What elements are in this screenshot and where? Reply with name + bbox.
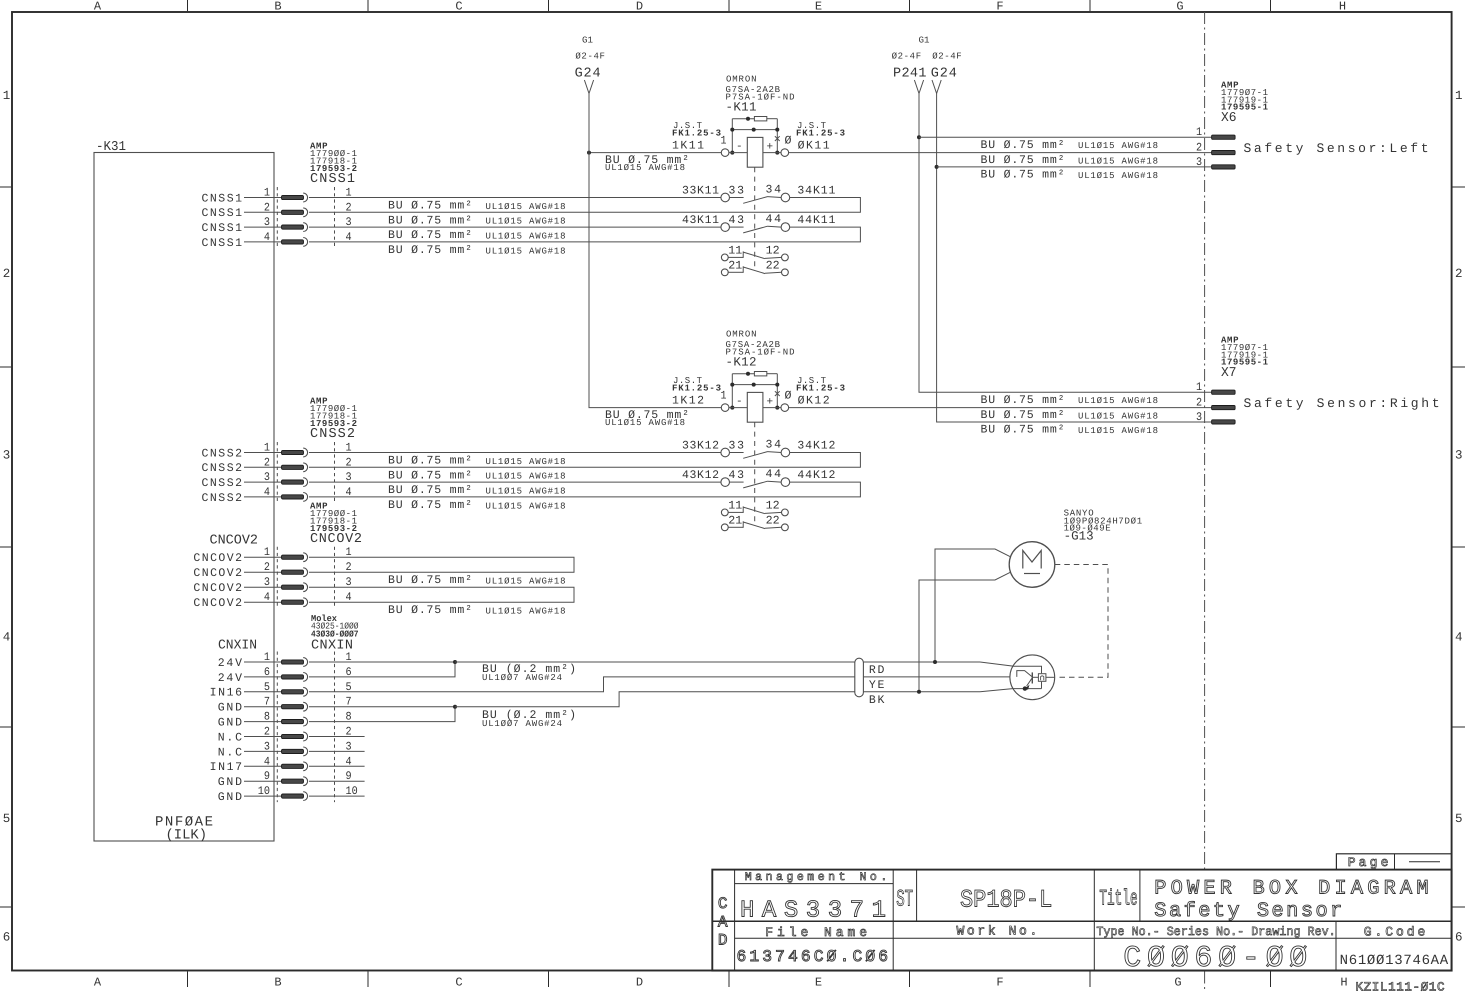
connector pin IN16.5 xyxy=(282,687,308,696)
svg-text:-K12: -K12 xyxy=(726,356,757,370)
contact 33-34 -K11 xyxy=(721,193,790,203)
connector pin CNSS2.4 xyxy=(282,493,308,502)
svg-text:2: 2 xyxy=(3,267,11,281)
svg-text:CNSS2: CNSS2 xyxy=(202,492,243,505)
svg-text:5: 5 xyxy=(1455,812,1463,826)
svg-text:44: 44 xyxy=(766,213,782,226)
wire N.C pin 3 xyxy=(244,750,365,752)
wire CNSS2 pin 2 xyxy=(244,466,282,468)
wire spec label xyxy=(388,604,566,617)
svg-text:CNSS2: CNSS2 xyxy=(202,447,243,460)
svg-text:BU Ø.75 mm²: BU Ø.75 mm² xyxy=(388,455,472,468)
svg-text:9: 9 xyxy=(346,770,352,783)
junction dot GND xyxy=(453,705,457,709)
connector pin X6.3 xyxy=(1212,165,1236,169)
arrow P241 xyxy=(914,80,923,94)
aux contact labels 21 22 xyxy=(728,260,779,273)
svg-text:UL1Ø15 AWG#18: UL1Ø15 AWG#18 xyxy=(486,607,566,617)
mechanical link -K12 xyxy=(754,422,756,525)
svg-text:FK1.25-3: FK1.25-3 xyxy=(672,384,721,394)
wire G24 left vertical xyxy=(588,94,590,153)
power source G24 (left) xyxy=(575,36,605,82)
svg-text:34: 34 xyxy=(766,439,782,452)
svg-text:43K11: 43K11 xyxy=(682,214,719,227)
svg-text:E: E xyxy=(815,976,822,990)
mechanical link -K11 xyxy=(754,167,756,270)
svg-text:A: A xyxy=(718,913,728,931)
wire spec label xyxy=(388,455,566,468)
svg-text:1K11: 1K11 xyxy=(672,140,704,153)
svg-text:OMRON: OMRON xyxy=(726,330,757,340)
svg-text:3: 3 xyxy=(1196,411,1202,424)
svg-text:UL1Ø15 AWG#18: UL1Ø15 AWG#18 xyxy=(486,246,566,256)
wire CNSS2 pin 1 xyxy=(244,452,721,454)
svg-text:3: 3 xyxy=(1196,156,1202,169)
svg-text:33: 33 xyxy=(729,439,745,452)
svg-text:FK1.25-3: FK1.25-3 xyxy=(796,129,845,139)
svg-text:CNSS2: CNSS2 xyxy=(202,477,243,490)
connector pin N.C.3 xyxy=(282,747,308,756)
relay -K12 part labels (OMRON G7SA-2A2B) xyxy=(726,330,795,370)
wire CNSS1 pin 1 xyxy=(244,197,721,199)
svg-text:BU Ø.75 mm²: BU Ø.75 mm² xyxy=(388,200,472,213)
wire CNCOV2 pin 3 xyxy=(244,586,282,588)
motor -G13 part labels (SANYO) xyxy=(1064,509,1143,544)
svg-text:-K11: -K11 xyxy=(726,101,757,115)
svg-text:43: 43 xyxy=(729,214,745,227)
svg-text:E: E xyxy=(815,0,822,14)
svg-text:2: 2 xyxy=(264,201,270,214)
svg-text:A: A xyxy=(94,976,102,990)
svg-text:OMRON: OMRON xyxy=(726,75,757,85)
svg-text:N.C: N.C xyxy=(218,746,242,759)
svg-text:3: 3 xyxy=(3,448,11,462)
arrow G24 right xyxy=(932,80,941,94)
svg-text:Ø2-4F: Ø2-4F xyxy=(932,52,962,62)
connector pin CNSS1.4 xyxy=(282,238,308,247)
contact 43-44 -K11 xyxy=(721,223,790,233)
connector part labels CNSS2 xyxy=(310,397,357,443)
connector part labels X7 xyxy=(1221,336,1269,382)
relay -K12 suppression branch xyxy=(732,372,777,408)
wire spec label xyxy=(388,229,566,242)
wire GND pin 9 xyxy=(244,780,365,782)
wire CNSS2 pin2 return loop xyxy=(309,453,860,468)
connector pin IN17.4 xyxy=(282,762,308,771)
motor -G13 xyxy=(1009,542,1055,588)
svg-text:21: 21 xyxy=(728,260,742,273)
connector part labels CNCOV2 xyxy=(310,501,362,547)
svg-text:UL1Ø15 AWG#18: UL1Ø15 AWG#18 xyxy=(605,418,685,428)
svg-text:G1: G1 xyxy=(919,36,930,46)
wire N.C pin 2 xyxy=(244,736,365,738)
svg-text:IN16: IN16 xyxy=(210,687,242,700)
svg-text:4: 4 xyxy=(346,755,352,768)
svg-text:1: 1 xyxy=(264,651,270,664)
svg-text:BU Ø.75 mm²: BU Ø.75 mm² xyxy=(981,394,1065,407)
wire ØK11 to X6 pin2 xyxy=(789,152,1212,154)
svg-text:3: 3 xyxy=(346,740,352,753)
wire BK (GND) step and run xyxy=(455,692,980,707)
svg-text:CNSS1: CNSS1 xyxy=(202,207,243,220)
svg-text:1: 1 xyxy=(264,442,270,455)
terminal labels J.S.T FK1.25-3 (left of -K12) xyxy=(672,376,727,408)
title block texts xyxy=(718,871,1449,976)
svg-text:P241: P241 xyxy=(893,67,927,82)
wire spec label xyxy=(388,499,566,512)
svg-text:UL1Ø15 AWG#18: UL1Ø15 AWG#18 xyxy=(486,457,566,467)
wire CNXIN pin6 to pin1 (24V join) xyxy=(309,662,455,677)
svg-text:1: 1 xyxy=(346,442,352,455)
svg-text:33K11: 33K11 xyxy=(682,184,719,197)
connector pin CNSS1.1 xyxy=(282,193,308,202)
wire G24 to 1K11 xyxy=(589,152,721,154)
contact labels 43K11 44K11 xyxy=(682,213,835,227)
svg-text:21: 21 xyxy=(728,515,742,528)
connector pin GND.9 xyxy=(282,777,308,786)
wire CNSS2 pin 3 xyxy=(244,481,721,483)
connector separator dashes xyxy=(277,187,334,248)
svg-text:UL1Ø15 AWG#18: UL1Ø15 AWG#18 xyxy=(486,202,566,212)
wire spec label xyxy=(388,469,566,482)
svg-text:UL1Ø15 AWG#18: UL1Ø15 AWG#18 xyxy=(1078,412,1158,422)
block -K31 xyxy=(94,140,274,841)
svg-text:KZIL111-Ø1C: KZIL111-Ø1C xyxy=(1356,981,1445,992)
svg-text:UL1Ø15 AWG#18: UL1Ø15 AWG#18 xyxy=(486,217,566,227)
svg-text:G: G xyxy=(1174,976,1181,990)
wire CNCOV2 pin 1 xyxy=(244,556,282,558)
svg-text:22: 22 xyxy=(766,260,780,273)
contact labels 33K12 34K12 xyxy=(682,439,835,453)
cable color labels RD YE BK xyxy=(869,664,885,707)
svg-text:BU Ø.75 mm²: BU Ø.75 mm² xyxy=(388,574,472,587)
svg-text:UL1ØØ7 AWG#24: UL1ØØ7 AWG#24 xyxy=(482,673,562,683)
svg-text:File Name: File Name xyxy=(765,925,867,940)
svg-text:2: 2 xyxy=(264,561,270,574)
svg-text:UL1Ø15 AWG#18: UL1Ø15 AWG#18 xyxy=(1078,171,1158,181)
svg-text:6: 6 xyxy=(1455,930,1463,944)
terminal labels J.S.T FK1.25-3 (right of -K12) xyxy=(785,376,846,408)
junction dots -K12 xyxy=(730,372,779,410)
aux contact labels 21 22 xyxy=(728,515,779,528)
svg-text:G24: G24 xyxy=(575,67,601,82)
svg-text:UL1ØØ7 AWG#24: UL1ØØ7 AWG#24 xyxy=(482,719,562,729)
wire spec X6 pin 2 xyxy=(981,154,1159,167)
svg-text:H: H xyxy=(1340,976,1347,990)
svg-text:6: 6 xyxy=(3,930,11,944)
svg-text:7: 7 xyxy=(346,696,352,709)
wire IN16 pin 5 xyxy=(244,691,282,693)
svg-text:N61ØØ13746AA: N61ØØ13746AA xyxy=(1340,953,1449,969)
svg-text:2: 2 xyxy=(1196,397,1202,410)
svg-text:-: - xyxy=(736,396,743,408)
svg-text:1: 1 xyxy=(1196,381,1202,394)
svg-text:G24: G24 xyxy=(931,67,957,82)
svg-text:4: 4 xyxy=(264,231,270,244)
aux contact labels 11 12 xyxy=(728,500,779,513)
svg-text:+: + xyxy=(766,141,773,153)
wire coil -K12 xyxy=(729,407,781,409)
svg-text:CNXIN: CNXIN xyxy=(218,639,257,654)
svg-text:C: C xyxy=(718,895,728,913)
svg-text:10: 10 xyxy=(258,785,270,798)
arrow G24 left xyxy=(584,80,593,94)
svg-text:8: 8 xyxy=(264,711,270,724)
svg-text:X6: X6 xyxy=(1221,111,1237,126)
wire YE (IN16) step and run xyxy=(309,677,1017,692)
svg-text:4: 4 xyxy=(3,630,11,644)
junction dots -K11 xyxy=(730,117,779,155)
sheet boundary dash-dot line xyxy=(1204,12,1206,992)
sensor internal circuit xyxy=(980,662,1055,692)
svg-text:2: 2 xyxy=(264,456,270,469)
svg-text:Ø2-4F: Ø2-4F xyxy=(892,52,922,62)
polarity mark -K11 xyxy=(775,136,780,141)
junction dot G24 to X6 pin3 xyxy=(935,165,939,169)
svg-text:FK1.25-3: FK1.25-3 xyxy=(796,384,845,394)
svg-text:G1: G1 xyxy=(582,36,593,46)
svg-text:X7: X7 xyxy=(1221,366,1237,381)
svg-text:BU Ø.75 mm²: BU Ø.75 mm² xyxy=(981,169,1065,182)
wire CNCOV2 pin 2 xyxy=(244,571,282,573)
wire GND pin 8 xyxy=(244,721,282,723)
svg-text:GND: GND xyxy=(218,717,242,730)
svg-text:B: B xyxy=(274,0,281,14)
connector pin CNCOV2.3 xyxy=(282,583,308,592)
svg-text:IN17: IN17 xyxy=(210,761,242,774)
wire CNSS1 pin 2 xyxy=(244,211,282,213)
svg-text:BU Ø.75 mm²: BU Ø.75 mm² xyxy=(981,424,1065,437)
svg-text:UL1Ø15 AWG#18: UL1Ø15 AWG#18 xyxy=(1078,157,1158,167)
svg-text:2: 2 xyxy=(346,726,352,739)
wire CNXIN pin8 to pin7 (GND join) xyxy=(309,707,455,722)
svg-text:BU Ø.75 mm²: BU Ø.75 mm² xyxy=(388,244,472,257)
coil terminal ØK11 xyxy=(781,149,789,157)
svg-text:3: 3 xyxy=(264,740,270,753)
svg-text:2: 2 xyxy=(264,726,270,739)
connector pin X7.2 xyxy=(1212,406,1236,410)
svg-text:D: D xyxy=(636,976,643,990)
coil terminal 1K12 xyxy=(721,404,729,412)
wire G24 to 1K12 xyxy=(589,153,721,408)
wire spec X6 pin 3 xyxy=(981,169,1159,182)
svg-text:5: 5 xyxy=(264,681,270,694)
wire spec X7 pin 2 xyxy=(981,409,1159,422)
svg-text:3: 3 xyxy=(1455,448,1463,462)
svg-text:Ø: Ø xyxy=(785,134,792,147)
wire spec label xyxy=(388,244,566,257)
connector separator dashes xyxy=(277,652,334,803)
svg-text:CNSS1: CNSS1 xyxy=(310,172,355,187)
relay -K11 part labels (OMRON G7SA-2A2B) xyxy=(726,75,795,115)
connector pin X7.1 xyxy=(1212,390,1236,394)
svg-text:BU Ø.75 mm²: BU Ø.75 mm² xyxy=(981,154,1065,167)
junction dot 24V xyxy=(453,660,457,664)
wire CNSS1 pin4 return loop xyxy=(309,227,860,242)
connector pin CNCOV2.1 xyxy=(282,553,308,562)
svg-text:D: D xyxy=(718,931,728,949)
svg-text:12: 12 xyxy=(766,245,780,258)
svg-text:-: - xyxy=(736,141,743,153)
svg-text:BK: BK xyxy=(869,694,885,707)
wire CNCOV2 pin 4 xyxy=(244,601,282,603)
svg-text:C: C xyxy=(455,0,462,14)
svg-text:4: 4 xyxy=(264,486,270,499)
coil terminal ØK12 xyxy=(781,404,789,412)
mechanical link motor to sensor xyxy=(1055,565,1108,678)
svg-text:2: 2 xyxy=(1455,267,1463,281)
svg-text:1: 1 xyxy=(346,651,352,664)
connector part labels CNSS1 xyxy=(310,142,357,188)
zone letters top xyxy=(94,0,1346,14)
connector pin CNSS2.3 xyxy=(282,478,308,487)
svg-text:F: F xyxy=(996,0,1003,14)
wire spec label xyxy=(605,409,689,428)
svg-text:UL1Ø15 AWG#18: UL1Ø15 AWG#18 xyxy=(605,163,685,173)
svg-text:44: 44 xyxy=(766,468,782,481)
wire spec label xyxy=(388,214,566,227)
svg-text:YE: YE xyxy=(869,679,885,692)
terminal labels J.S.T FK1.25-3 (left of -K11) xyxy=(672,121,727,153)
svg-text:+: + xyxy=(766,396,773,408)
svg-text:44K12: 44K12 xyxy=(797,469,835,482)
aux contact 21-22 -K12 xyxy=(721,521,788,530)
wire X6 pin1 xyxy=(919,136,1212,138)
wire spec X7 pin 1 xyxy=(981,394,1159,407)
wire spec BU (0.2 mm2) lower xyxy=(482,709,576,729)
svg-text:34K11: 34K11 xyxy=(797,184,835,197)
svg-text:9: 9 xyxy=(264,770,270,783)
connector pin X6.1 xyxy=(1212,135,1236,139)
connector pin X6.2 xyxy=(1212,151,1236,155)
svg-text:22: 22 xyxy=(766,515,780,528)
wire CNSS1 pin 4 xyxy=(244,241,282,243)
connector separator dashes xyxy=(277,442,334,503)
connector pin 24V.1 xyxy=(282,658,308,667)
svg-text:24V: 24V xyxy=(218,657,242,670)
fan speed sensor xyxy=(1010,655,1055,700)
contact labels 43K12 44K12 xyxy=(682,468,835,482)
svg-text:CNSS1: CNSS1 xyxy=(202,237,243,250)
svg-text:BU Ø.75 mm²: BU Ø.75 mm² xyxy=(981,139,1065,152)
svg-text:A: A xyxy=(94,0,102,14)
svg-text:3: 3 xyxy=(264,216,270,229)
svg-text:1: 1 xyxy=(264,187,270,200)
page box xyxy=(1336,854,1451,870)
connector pin GND.7 xyxy=(282,702,308,711)
wire P241 vertical to X7 pin1 xyxy=(919,94,1212,393)
svg-text:Ø: Ø xyxy=(785,389,792,402)
junction dot motor + on RD xyxy=(933,660,937,664)
svg-text:ØK11: ØK11 xyxy=(798,140,830,153)
svg-text:5: 5 xyxy=(3,812,11,826)
svg-text:N.C: N.C xyxy=(218,731,242,744)
svg-text:BU Ø.75 mm²: BU Ø.75 mm² xyxy=(981,409,1065,422)
svg-text:-G13: -G13 xyxy=(1064,529,1094,543)
svg-text:24V: 24V xyxy=(218,672,242,685)
svg-text:Title: Title xyxy=(1099,887,1137,912)
connector pin 24V.6 xyxy=(282,673,308,682)
svg-text:1K12: 1K12 xyxy=(672,395,704,408)
junction dot G24 feed xyxy=(587,151,591,155)
wire spec label xyxy=(388,484,566,497)
connector pin X7.3 xyxy=(1212,420,1236,424)
svg-text:1: 1 xyxy=(3,89,11,103)
svg-text:7: 7 xyxy=(264,696,270,709)
svg-text:UL1Ø15 AWG#18: UL1Ø15 AWG#18 xyxy=(1078,141,1158,151)
contact 33-34 -K12 xyxy=(721,448,790,458)
svg-text:GND: GND xyxy=(218,776,242,789)
connector pin GND.8 xyxy=(282,717,308,726)
relay -K12 coil xyxy=(736,392,773,422)
connector pin CNCOV2.4 xyxy=(282,598,308,607)
svg-text:UL1Ø15 AWG#18: UL1Ø15 AWG#18 xyxy=(486,232,566,242)
svg-text:SP18P-L: SP18P-L xyxy=(960,885,1052,914)
svg-text:UL1Ø15 AWG#18: UL1Ø15 AWG#18 xyxy=(486,501,566,511)
wire spec label xyxy=(388,574,566,587)
svg-text:UL1Ø15 AWG#18: UL1Ø15 AWG#18 xyxy=(1078,396,1158,406)
aux contact 11-12 -K11 xyxy=(721,251,788,260)
svg-text:33: 33 xyxy=(729,184,745,197)
wire IN17 pin 4 xyxy=(244,765,365,767)
svg-text:BU Ø.75 mm²: BU Ø.75 mm² xyxy=(388,214,472,227)
wire spec BU (0.2 mm2) upper xyxy=(482,663,576,683)
svg-text:G: G xyxy=(1176,0,1183,14)
contact labels 33K11 34K11 xyxy=(682,184,835,198)
wire 24V pin 1 xyxy=(244,661,455,663)
svg-text:H: H xyxy=(1339,0,1346,14)
svg-text:GND: GND xyxy=(218,791,242,804)
svg-text:11: 11 xyxy=(728,500,742,513)
wire spec label xyxy=(605,154,689,173)
svg-text:CNSS1: CNSS1 xyxy=(202,192,243,205)
svg-text:BU Ø.75 mm²: BU Ø.75 mm² xyxy=(388,604,472,617)
relay -K11 suppression branch xyxy=(732,117,777,153)
wire GND pin 7 xyxy=(244,706,455,708)
connector part labels X6 xyxy=(1221,81,1269,127)
wire coil -K11 xyxy=(729,152,781,154)
connector separator dashes xyxy=(277,547,334,609)
svg-text:FK1.25-3: FK1.25-3 xyxy=(672,129,721,139)
contact 43-44 -K12 xyxy=(721,478,790,488)
junction dot motor - on BK xyxy=(917,690,921,694)
wire spec label xyxy=(388,200,566,213)
connector pin CNSS2.2 xyxy=(282,463,308,472)
svg-text:33K12: 33K12 xyxy=(682,439,719,452)
svg-text:6: 6 xyxy=(264,666,270,679)
svg-text:CNSS1: CNSS1 xyxy=(202,222,243,235)
wire GND pin 10 xyxy=(244,795,365,797)
zone numbers left xyxy=(3,89,11,945)
svg-text:UL1Ø15 AWG#18: UL1Ø15 AWG#18 xyxy=(486,487,566,497)
title block xyxy=(712,870,1451,971)
svg-text:1: 1 xyxy=(264,546,270,559)
wire RD (24V) to fan sensor xyxy=(455,661,980,663)
svg-text:ØK12: ØK12 xyxy=(798,395,830,408)
svg-text:4: 4 xyxy=(264,755,270,768)
svg-text:1: 1 xyxy=(1455,89,1463,103)
polarity mark -K12 xyxy=(775,391,780,396)
svg-text:10: 10 xyxy=(346,785,358,798)
wire 24V pin 6 xyxy=(244,676,282,678)
power source P241 / G24 (right) xyxy=(892,36,962,82)
svg-text:Type No.- Series No.- Drawing: Type No.- Series No.- Drawing Rev. xyxy=(1096,925,1335,939)
terminal labels J.S.T FK1.25-3 (right of -K11) xyxy=(785,121,846,153)
svg-text:C: C xyxy=(455,976,462,990)
wire motor - feed xyxy=(919,572,1010,691)
svg-text:3: 3 xyxy=(346,216,352,229)
svg-text:-K31: -K31 xyxy=(96,140,126,155)
